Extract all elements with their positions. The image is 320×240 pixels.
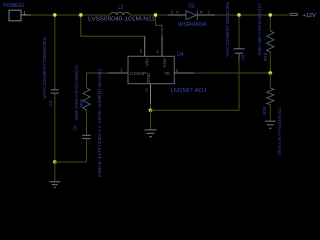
svg-text:+12V: +12V (303, 13, 316, 19)
svg-text:VHC22ME077000CE0: VHC22ME077000CE0 (42, 36, 47, 99)
svg-text:LVS505040-101M-N11: LVS505040-101M-N11 (88, 16, 155, 22)
svg-text:GND: GND (146, 72, 151, 83)
regulator IC U4 LM2587-ADJ (128, 52, 207, 94)
svg-text:VIN: VIN (144, 58, 149, 66)
svg-text:0603-20K+/-5%(1/10W)1C: 0603-20K+/-5%(1/10W)1C (257, 3, 262, 55)
svg-text:COMP: COMP (130, 71, 147, 76)
pin 2 FB of U4 (174, 68, 194, 73)
node junction rail/VSW (153, 13, 157, 17)
ground GND right (265, 105, 276, 129)
diode D3 (168, 4, 215, 29)
wire C4 branch upper (54, 15, 56, 90)
svg-text:K: K (200, 10, 203, 15)
wire VIN input: junction to pin 5 (81, 15, 145, 36)
svg-text:D3: D3 (188, 4, 195, 10)
svg-text:0603-2.4K+/-5%(1/16W)1C: 0603-2.4K+/-5%(1/16W)1C (277, 107, 282, 155)
pin 5 VIN of U4 (140, 36, 145, 56)
pin 1 of POWER1 (21, 10, 31, 16)
ground GND center (144, 110, 156, 137)
resistor R20 (74, 65, 90, 121)
capacitor C5 (225, 1, 245, 61)
svg-text:1: 1 (23, 10, 26, 16)
node junction rail/R18 (268, 13, 272, 17)
resistor R19 (262, 88, 282, 155)
node junction rail/C4 (53, 13, 57, 17)
ground GND left (49, 162, 60, 187)
wire GND pin to ground node (150, 104, 152, 110)
capacitor C6 (72, 68, 102, 177)
wire ground rail bottom-left (55, 161, 87, 163)
wire C4 branch lower (54, 93, 56, 162)
svg-text:0603-1UF/16V+/-10%-X5R(0.8mm): 0603-1UF/16V+/-10%-X5R(0.8mm) (97, 68, 102, 177)
pin 4 Vsw of U4 (156, 36, 162, 56)
wire R18 upper lead (269, 15, 271, 31)
svg-text:C5: C5 (240, 54, 245, 60)
svg-text:R20: R20 (79, 98, 84, 107)
wire COMP branch bottom (86, 139, 88, 162)
svg-text:Vsw: Vsw (162, 58, 167, 67)
pin 1 COMP of U4 (108, 67, 128, 73)
connector POWER1 (3, 3, 25, 21)
svg-text:R19: R19 (262, 106, 267, 115)
node junction GND rail (148, 108, 152, 112)
inductor L2 (88, 5, 155, 22)
svg-text:U4: U4 (177, 52, 184, 58)
node junction C4/ground rail (53, 160, 57, 164)
wire R19 upper lead (269, 73, 271, 88)
wire top rail from POWER1 to L2 (31, 14, 110, 16)
capacitor C4 (42, 36, 59, 106)
node junction FB divider (268, 71, 272, 75)
wire top rail from L2 to D3 (130, 14, 168, 16)
wire R18 lower lead to FB node (269, 52, 271, 73)
svg-text:A: A (176, 10, 179, 15)
wire top rail from D3 to +12V flag (215, 14, 289, 16)
wire VSW node: junction to pin 4 (156, 15, 163, 36)
svg-text:LM2587-ADJ: LM2587-ADJ (171, 88, 207, 94)
svg-text:POWER1: POWER1 (3, 3, 25, 9)
power flag +12V (290, 13, 316, 19)
svg-text:VHC22ME077000CE0: VHC22ME077000CE0 (225, 1, 230, 57)
node junction rail/VIN (79, 13, 83, 17)
svg-text:L2: L2 (118, 5, 124, 11)
wire ground rail center to C5 (151, 61, 240, 110)
resistor R18 (257, 3, 274, 61)
svg-text:0603-470K+/-5%(1/16W)1C: 0603-470K+/-5%(1/16W)1C (74, 65, 79, 121)
svg-text:FB: FB (164, 71, 170, 76)
svg-text:C6: C6 (72, 125, 77, 131)
wire R20 to COMP (87, 73, 109, 88)
svg-text:C4: C4 (48, 100, 53, 106)
pin 3 GND of U4 (145, 84, 150, 104)
wire C5 branch upper (238, 15, 240, 49)
wire FB to divider node (194, 72, 270, 74)
svg-text:WSR4003A: WSR4003A (178, 22, 207, 28)
svg-text:R18: R18 (263, 52, 268, 61)
wire C6 to R20 (86, 110, 88, 135)
node junction rail/C5 (237, 13, 241, 17)
